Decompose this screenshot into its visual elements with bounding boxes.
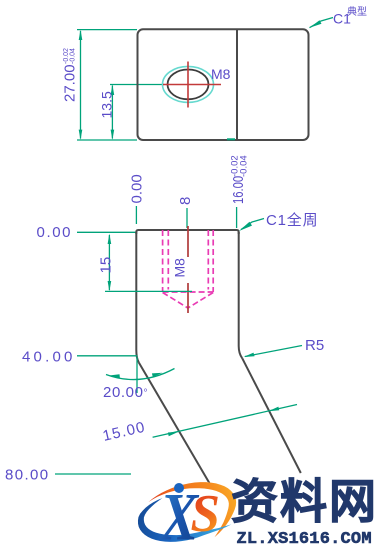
svg-text:M8: M8 — [211, 66, 231, 82]
tick on top view bottom edge — [227, 138, 235, 140]
svg-text:0.00: 0.00 — [129, 174, 146, 203]
svg-text:27.00: 27.00 — [62, 64, 79, 102]
leader 0.00 — [77, 231, 137, 233]
logo letter X — [158, 479, 200, 548]
ordinate label 8 (vertical) — [177, 197, 194, 205]
label M8 (front view, vertical) — [172, 258, 188, 278]
hole centreline (front) — [187, 226, 189, 257]
dimension 27.00 extension line bottom — [77, 139, 137, 141]
svg-text:ZL.XS1616.COM: ZL.XS1616.COM — [237, 530, 372, 548]
svg-text:-0.04: -0.04 — [239, 155, 250, 177]
dimension 13.5 line with arrows — [111, 86, 113, 139]
hole ellipse — [168, 70, 209, 100]
thread depth dashed line — [163, 291, 214, 293]
tolerance text below top view (start of 16.00 ordinate) — [230, 155, 250, 177]
svg-text:M8: M8 — [172, 258, 188, 278]
angle extension line (vertical ref) — [136, 357, 138, 393]
svg-text:20.00°: 20.00° — [103, 384, 148, 401]
front view right edge — [238, 232, 240, 346]
label 15.00 (rotated) — [101, 419, 147, 445]
dimension 27.00 extension line top — [77, 29, 137, 31]
svg-text:80.00: 80.00 — [5, 467, 50, 484]
leader 40.00 — [77, 355, 137, 357]
front view outline: top edge — [136, 230, 238, 234]
top view outline (rounded rect) — [138, 29, 309, 140]
svg-text:-0.04: -0.04 — [70, 48, 77, 64]
dimension 13.5 centre extension line — [110, 84, 164, 86]
ordinate label 16.00 (vertical) — [229, 176, 246, 204]
threaded hole hidden outline (outer dashed) — [162, 230, 164, 292]
drill point V dashed — [163, 293, 214, 309]
svg-text:S: S — [191, 485, 220, 543]
watermark background — [228, 476, 376, 548]
ordinate 0.00 extension line — [135, 206, 137, 224]
dimension text 15 — [98, 257, 115, 274]
svg-text:C1全周: C1全周 — [266, 211, 318, 229]
ordinate 8 extension line — [186, 208, 188, 228]
thread depth extension line — [105, 290, 192, 292]
leader R5 — [245, 346, 302, 357]
threaded hole hidden minor dia (inner dashed) — [167, 230, 169, 290]
dimension 15.00 line (between legs) — [153, 405, 297, 438]
centreline crosshair horizontal — [163, 84, 221, 86]
svg-text:16.00: 16.00 — [229, 176, 246, 204]
centreline crosshair vertical — [187, 62, 189, 108]
ordinate 16.00 extension line — [236, 207, 238, 228]
top view bend line — [236, 30, 238, 140]
front view left edge — [135, 232, 137, 350]
svg-text:0.00: 0.00 — [37, 224, 73, 241]
dimension text 13.5 — [99, 91, 115, 118]
thread circle (cyan) — [163, 66, 214, 102]
svg-text:40.00: 40.00 — [22, 349, 76, 366]
right leg — [242, 358, 301, 473]
logo dot — [174, 483, 184, 493]
left leg — [139, 363, 210, 484]
dimension 27.00 line with arrows — [80, 31, 82, 139]
ordinate label 0.00 (vertical) — [129, 174, 146, 203]
svg-text:15.00: 15.00 — [101, 419, 147, 445]
leader 80.00 — [55, 473, 131, 475]
logo orange swoosh — [146, 472, 244, 548]
svg-text:13.5: 13.5 — [99, 91, 115, 118]
svg-text:典型: 典型 — [347, 5, 367, 18]
angle dimension arc 20 deg — [106, 369, 175, 380]
svg-text:15: 15 — [98, 257, 115, 274]
svg-text:R5: R5 — [305, 337, 324, 354]
leader C1 full-round — [241, 219, 264, 230]
svg-text:8: 8 — [177, 197, 194, 205]
logo blue swoosh — [133, 482, 232, 548]
dimension 15 (thread depth) line — [108, 235, 110, 290]
dimension text 27.00 with tolerance — [62, 48, 79, 102]
logo ellipse white fill — [131, 472, 243, 548]
left bend — [136, 350, 139, 363]
svg-text:资料网: 资料网 — [231, 475, 376, 528]
right bend — [239, 346, 243, 358]
leader C1 typ — [310, 18, 334, 28]
